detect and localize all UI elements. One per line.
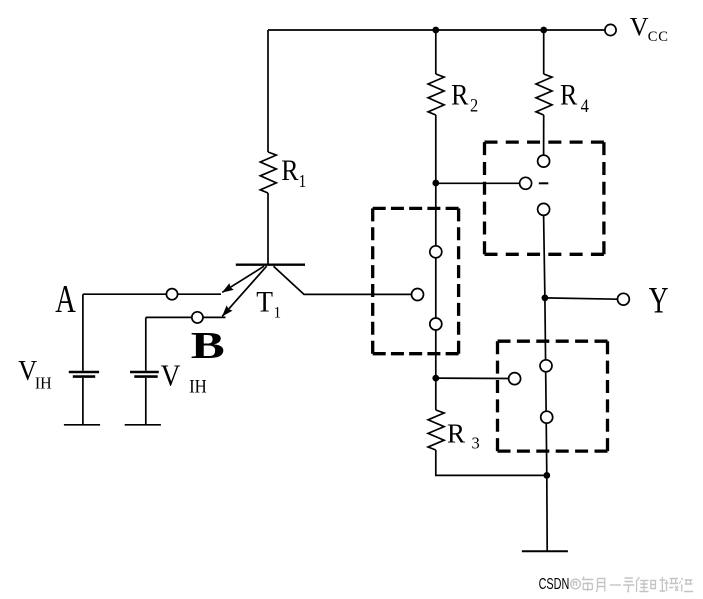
terminal: box 2 left circle bbox=[520, 177, 532, 189]
wire: ground node to ground symbol bbox=[546, 475, 548, 551]
resistor R2 bbox=[428, 74, 444, 115]
transistor T1 emitter arrow to input B bbox=[222, 266, 266, 316]
wire: Vcc rail down to R1 bbox=[267, 30, 269, 152]
battery V_IH (A) plate long bbox=[69, 371, 99, 374]
terminal: output Y circle bbox=[618, 293, 630, 305]
wire: R3 node to box 3 left circle bbox=[436, 377, 509, 379]
svg-text:R2: R2 bbox=[451, 79, 478, 116]
wire: battery B to ground bbox=[145, 378, 147, 425]
svg-text:CSDN: CSDN bbox=[539, 575, 570, 592]
svg-text:R3: R3 bbox=[447, 419, 480, 453]
svg-text:R4: R4 bbox=[560, 79, 589, 117]
battery V_IH (B) plate short bbox=[134, 375, 157, 378]
svg-text:B: B bbox=[191, 324, 225, 367]
switch box 1 dashed frame bbox=[373, 208, 459, 353]
wire: battery A to ground bbox=[82, 378, 84, 425]
terminal: box 1 bottom circle bbox=[430, 318, 442, 330]
junction: R2 top node bbox=[432, 27, 439, 34]
wire: input A horizontal bbox=[83, 293, 167, 295]
wire: input B after circle bbox=[203, 316, 226, 318]
wire: input A after circle bbox=[178, 293, 221, 295]
wire: input B horizontal bbox=[146, 316, 192, 318]
resistor R4 bbox=[536, 74, 552, 115]
svg-text:A: A bbox=[55, 278, 76, 320]
wire: box 2 bottom circle to Y node bbox=[544, 215, 545, 298]
svg-text:VCC: VCC bbox=[630, 13, 669, 46]
wire: node through switch box 1 bbox=[435, 183, 437, 378]
svg-text:VIH: VIH bbox=[18, 355, 52, 392]
battery V_IH (B) plate long bbox=[130, 371, 159, 374]
junction: ground node bbox=[543, 472, 550, 479]
junction: R3 top node bbox=[432, 375, 439, 382]
wire: node to switch box 2 base bbox=[436, 182, 520, 184]
transistor T1 base bar bbox=[236, 264, 305, 266]
terminal: box 1 top circle bbox=[430, 246, 442, 258]
transistor T1 emitter arrow to input A bbox=[222, 266, 264, 292]
terminal: input A circle bbox=[166, 289, 177, 300]
resistor R3 bbox=[428, 410, 444, 450]
transistor T1 collector lead bbox=[274, 266, 412, 294]
ground (output) bbox=[522, 550, 568, 552]
junction: R2 bottom node bbox=[432, 180, 439, 187]
wire: R3 bottom to ground node bbox=[436, 450, 547, 475]
junction: R4 top node bbox=[540, 27, 547, 34]
ground (input A) bbox=[64, 424, 100, 426]
resistor R1 bbox=[260, 152, 276, 193]
terminal: box 3 bottom circle bbox=[541, 411, 553, 423]
ground (input B) bbox=[125, 424, 161, 426]
wire: Vcc rail down to R4 bbox=[543, 30, 545, 74]
minus mark at box 2 base bbox=[539, 182, 549, 184]
switch box 3 dashed frame bbox=[498, 341, 608, 451]
wire: input B vertical bbox=[145, 317, 147, 370]
watermark @ sign bbox=[571, 579, 581, 589]
wire: Vcc rail down to R2 bbox=[435, 30, 437, 74]
battery V_IH (A) plate short bbox=[73, 375, 95, 378]
wire: R1 to T1 base bbox=[267, 193, 269, 264]
terminal Vcc circle bbox=[605, 24, 616, 35]
wire: top Vcc rail bbox=[268, 29, 605, 31]
svg-text:R1: R1 bbox=[281, 154, 306, 191]
terminal: input B circle bbox=[192, 312, 203, 323]
terminal: box 3 left circle bbox=[509, 373, 521, 385]
svg-text:T1: T1 bbox=[256, 287, 281, 322]
svg-text:Y: Y bbox=[649, 281, 669, 322]
terminal: box 3 top circle bbox=[540, 360, 552, 372]
wire: Y node down through switch box 3 bbox=[545, 298, 547, 476]
watermark CJK characters (approximation) bbox=[582, 0, 693, 592]
terminal: box 2 top circle bbox=[538, 155, 550, 167]
wire: node down to R3 bbox=[435, 378, 437, 410]
wire: input A vertical to battery bbox=[82, 294, 84, 371]
wire: R2 to node bbox=[435, 115, 437, 183]
wire: R4 into box 2 bbox=[543, 115, 545, 155]
junction: Y node bbox=[542, 295, 549, 302]
wire: Y node to output circle bbox=[545, 298, 618, 299]
switch box 2 dashed frame bbox=[485, 142, 604, 254]
terminal: box 1 left circle (from T1 collector) bbox=[412, 289, 424, 301]
terminal: box 2 bottom circle bbox=[538, 203, 550, 215]
